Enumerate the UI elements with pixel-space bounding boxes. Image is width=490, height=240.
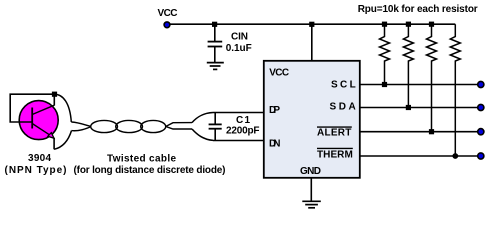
svg-text:2200pF: 2200pF [226,125,260,136]
svg-text:CIN: CIN [231,32,248,43]
svg-text:SDA: SDA [330,102,356,113]
svg-text:DP: DP [269,105,280,116]
svg-text:GND: GND [300,166,321,177]
svg-text:THERM: THERM [317,150,353,161]
svg-text:(NPN Type): (NPN Type) [5,165,67,176]
svg-text:SCL: SCL [331,80,356,91]
svg-text:3904: 3904 [28,153,51,164]
svg-text:ALERT: ALERT [317,128,351,139]
svg-text:Twisted cable: Twisted cable [107,154,176,165]
svg-text:VCC: VCC [269,68,289,79]
svg-text:(for long distance discrete di: (for long distance discrete diode) [74,165,226,176]
svg-text:DN: DN [269,139,281,150]
svg-text:VCC: VCC [158,8,178,19]
svg-text:Rpu=10k for each resistor: Rpu=10k for each resistor [358,4,478,15]
svg-text:0.1uF: 0.1uF [226,43,252,54]
